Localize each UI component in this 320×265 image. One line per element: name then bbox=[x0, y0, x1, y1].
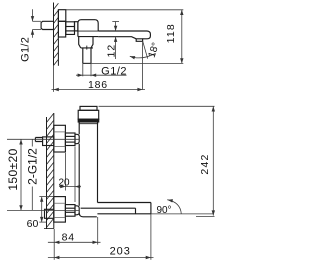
body tube bbox=[78, 122, 80, 134]
svg-text:150±20: 150±20 bbox=[6, 148, 20, 190]
svg-text:G1/2: G1/2 bbox=[20, 37, 32, 62]
svg-text:12: 12 bbox=[106, 44, 118, 58]
svg-text:2-G1/2: 2-G1/2 bbox=[25, 148, 39, 185]
body bottom boss bbox=[79, 213, 97, 217]
svg-text:G1/2: G1/2 bbox=[101, 65, 127, 77]
wall hatching bbox=[54, 3, 59, 65]
118 dim extension lines bbox=[66, 9, 184, 11]
outlet aerator tube bbox=[81, 48, 93, 64]
spout bottom extension to 242 bbox=[151, 213, 213, 215]
60 dim bbox=[39, 196, 54, 198]
18 deg reference lines bbox=[142, 41, 144, 90]
arrows top view bbox=[31, 10, 184, 91]
handle cap bbox=[80, 106, 97, 110]
20 dim bbox=[59, 186, 81, 188]
spout outlet bump bbox=[136, 39, 142, 42]
svg-text:118: 118 bbox=[165, 23, 177, 43]
G1/2 outlet dim bbox=[82, 63, 84, 76]
svg-text:60: 60 bbox=[27, 218, 39, 230]
wall hatching bottom view bbox=[47, 113, 54, 227]
12 dim bbox=[115, 22, 117, 32]
84 dim bbox=[53, 229, 55, 260]
svg-text:186: 186 bbox=[88, 79, 108, 91]
svg-text:84: 84 bbox=[62, 232, 75, 244]
upper inlet: pipe stub bbox=[35, 138, 42, 142]
2-G1/2 vertical leader bbox=[31, 139, 33, 146]
outlet housing below body bbox=[79, 37, 93, 48]
svg-text:90°: 90° bbox=[156, 205, 171, 216]
242 dim bbox=[99, 105, 215, 107]
upper inlet: sleeve behind wall bbox=[43, 137, 54, 146]
faucet installation technical drawing, two views bbox=[0, 0, 229, 265]
spout tube with drooped tip bbox=[98, 31, 150, 39]
supply pipe nipple through wall bbox=[41, 21, 54, 29]
lower inlet: sleeve behind wall bbox=[45, 209, 54, 218]
203 dim bbox=[150, 214, 152, 260]
wall section (hatched band) bbox=[54, 3, 59, 66]
upper adapter boss bbox=[75, 134, 79, 143]
svg-text:20: 20 bbox=[58, 178, 70, 189]
handle skirt bbox=[78, 110, 99, 119]
lower hex nut bbox=[65, 205, 75, 217]
handle dark band bbox=[78, 119, 99, 122]
arrows bottom view bbox=[19, 106, 215, 259]
150±20 dim line bbox=[20, 139, 22, 210]
lower adapter boss bbox=[75, 206, 79, 215]
upper escutcheon bbox=[54, 125, 66, 152]
handle knob (side view) bbox=[58, 10, 65, 22]
upper hex nut bbox=[65, 133, 75, 146]
adapter collar bbox=[75, 22, 78, 31]
186 dim bbox=[53, 66, 55, 92]
svg-text:203: 203 bbox=[110, 246, 131, 258]
inlet centerlines bbox=[7, 138, 79, 140]
svg-text:242: 242 bbox=[199, 153, 211, 174]
90 deg arc bbox=[167, 200, 181, 214]
spout bar front view bbox=[98, 202, 151, 204]
G1/2 pipe dim (left) bbox=[32, 9, 34, 21]
escutcheon plate bbox=[58, 21, 65, 37]
valve body (rounded) bbox=[78, 20, 98, 37]
wall section bbox=[44, 113, 54, 229]
lower escutcheon bbox=[54, 197, 66, 223]
svg-text:18°: 18° bbox=[147, 41, 162, 59]
hex nut bbox=[66, 22, 75, 35]
